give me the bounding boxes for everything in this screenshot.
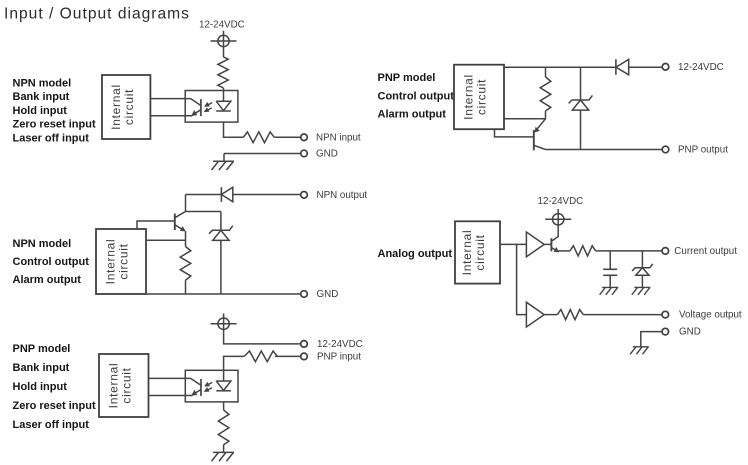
svg-text:Internal: Internal [109, 84, 123, 130]
internal circuit box U1 [102, 75, 150, 139]
svg-text:Internal: Internal [106, 363, 120, 409]
terminal PNP input [301, 353, 308, 360]
wire base from internal circuit [495, 129, 534, 137]
wire PNP input left segment down to LED [275, 355, 301, 357]
svg-text:Input / Output diagrams: Input / Output diagrams [4, 6, 190, 23]
wire zener bottom to GND rail [220, 240, 222, 294]
wire rail to resistor [545, 67, 547, 77]
svg-text:NPN output: NPN output [317, 190, 368, 201]
wire base from internal circuit [137, 221, 175, 229]
wire GND rail [146, 293, 301, 295]
terminal NPN input [301, 134, 308, 141]
ground symbol (zener) [632, 287, 651, 294]
svg-text:circuit: circuit [122, 89, 136, 125]
wire internal circuit to phototransistor collector [150, 98, 190, 100]
svg-text:Internal: Internal [460, 230, 474, 276]
wire internal circuit to buffers junction [500, 243, 526, 245]
wire junction down to buffer 2 [517, 244, 527, 314]
svg-text:PNP input: PNP input [317, 352, 361, 363]
wire collector node to zener [186, 211, 221, 213]
op-amp buffer A1 [526, 232, 544, 257]
svg-text:Control output: Control output [13, 256, 90, 268]
svg-text:circuit: circuit [117, 243, 131, 279]
resistor R4 (series, horizontal) [244, 351, 277, 362]
svg-text:Zero reset input: Zero reset input [13, 119, 96, 131]
wire node to zener ZD3 [641, 251, 643, 268]
wire node to capacitor C1 [609, 251, 611, 269]
resistor R1 (pull-up, vertical) [218, 57, 228, 88]
wire diode to 12-24VDC terminal [629, 66, 662, 68]
svg-text:PNP model: PNP model [13, 343, 71, 355]
wire +V rail [504, 66, 616, 68]
ground symbol [212, 452, 235, 461]
svg-text:Zero reset input: Zero reset input [13, 400, 96, 412]
svg-text:12-24VDC: 12-24VDC [317, 339, 363, 350]
resistor R7 (horizontal) [570, 246, 596, 256]
wire capacitor to ground [609, 275, 611, 287]
svg-text:Laser off input: Laser off input [13, 419, 90, 431]
resistor R6 (vertical) [540, 77, 551, 111]
terminal NPN output [301, 192, 308, 199]
wire resistor to optocoupler [223, 88, 225, 91]
svg-text:circuit: circuit [475, 79, 489, 115]
internal circuit box U2 [96, 229, 146, 294]
svg-text:Hold input: Hold input [13, 381, 68, 393]
resistor R3 (vertical) [180, 247, 191, 281]
op-amp buffer A2 [526, 302, 544, 327]
zener diode ZD1 [209, 226, 233, 241]
wire buffer to transistor base [544, 243, 551, 245]
optocoupler PC1 (box, LED D1, phototransistor Q1, input wires) [185, 91, 238, 123]
ground symbol [212, 161, 235, 170]
svg-text:Alarm output: Alarm output [13, 274, 82, 286]
svg-text:circuit: circuit [473, 234, 487, 270]
transistor Q5 emitter with arrow [551, 248, 556, 251]
terminal GND [662, 328, 669, 335]
wire internal circuit to emitter node [504, 118, 546, 120]
power terminal [211, 313, 237, 334]
internal circuit box U4 [454, 65, 504, 130]
svg-text:Current output: Current output [674, 246, 737, 257]
ground symbol [630, 347, 649, 354]
wire diode to NPN output terminal [233, 194, 301, 196]
svg-text:Control output: Control output [378, 90, 455, 102]
svg-text:NPN model: NPN model [13, 77, 72, 89]
svg-text:PNP output: PNP output [678, 145, 728, 156]
wire collector node to diode [186, 194, 222, 196]
transistor Q2 (NPN) base bar [174, 214, 176, 231]
svg-text:12-24VDC: 12-24VDC [538, 196, 584, 207]
diode D4 (cathode bar left, pointing left) [615, 59, 617, 75]
wire internal circuit to emitter node [146, 239, 186, 241]
svg-text:12-24VDC: 12-24VDC [678, 62, 724, 73]
transistor Q4 collector [534, 145, 546, 149]
svg-text:Bank input: Bank input [13, 362, 70, 374]
svg-text:PNP model: PNP model [378, 72, 436, 84]
wire GND rail down to ground [223, 154, 225, 162]
svg-text:circuit: circuit [119, 367, 133, 403]
resistor R2 (series, horizontal) [243, 132, 274, 143]
svg-text:Bank input: Bank input [13, 91, 70, 103]
svg-text:NPN model: NPN model [13, 238, 72, 250]
terminal PNP output [662, 146, 669, 153]
svg-text:Laser off input: Laser off input [13, 133, 90, 145]
wire GND terminal to ground [641, 332, 662, 347]
zener diode ZD2 [569, 95, 593, 110]
resistor R8 (horizontal) [557, 310, 583, 320]
svg-text:12-24VDC: 12-24VDC [199, 20, 245, 31]
wire internal circuit to phototransistor emitter [150, 115, 192, 117]
svg-text:Internal: Internal [104, 239, 118, 285]
wire internal circuit to phototransistor collector [148, 377, 190, 379]
wire resistor to LED anode [224, 356, 245, 370]
wire resistor to Voltage output terminal [583, 314, 662, 316]
terminal Voltage output [662, 311, 669, 318]
internal circuit box U3 [99, 354, 149, 417]
transistor Q2 emitter with arrow [175, 225, 184, 230]
wire resistor to emitter node [545, 111, 547, 119]
internal circuit box U5 [455, 221, 500, 283]
terminal 12-24VDC [662, 64, 669, 71]
wire zener top [220, 212, 222, 231]
transistor Q4 base bar [533, 130, 535, 150]
wire zener to output rail [580, 110, 582, 149]
diode D2 (cathode bar left, pointing left) [220, 187, 222, 202]
wire LED cathode to resistor [223, 402, 225, 410]
svg-text:Alarm output: Alarm output [378, 109, 447, 121]
wire terminal down to 12-24VDC rail [224, 334, 301, 344]
wire collector up [185, 195, 187, 212]
optocoupler PC2 (box, LED D3, phototransistor Q3, input wires) [185, 370, 238, 402]
terminal GND [301, 291, 308, 298]
svg-text:Internal: Internal [462, 74, 476, 120]
wire LED cathode down and right to resistor R2 [224, 122, 244, 137]
transistor Q2 collector [175, 212, 186, 218]
power terminal 12-24VDC [545, 209, 571, 230]
svg-text:GND: GND [316, 149, 338, 160]
transistor Q4 (PNP) emitter with arrow into base bar [538, 119, 546, 129]
terminal GND [301, 150, 308, 157]
svg-text:GND: GND [317, 289, 339, 300]
power terminal 12-24VDC [211, 31, 237, 52]
terminal 12-24VDC [301, 341, 308, 348]
svg-text:Analog output: Analog output [378, 248, 453, 260]
svg-text:Hold input: Hold input [13, 105, 68, 117]
zener diode ZD3 [632, 264, 653, 275]
svg-text:NPN input: NPN input [316, 132, 361, 143]
svg-text:Voltage output: Voltage output [679, 310, 742, 321]
wire resistor to ground [223, 445, 225, 453]
wire emitter to resistor [559, 250, 570, 252]
terminal Current output [662, 248, 669, 255]
wire resistor to NPN input terminal [274, 136, 301, 138]
wire emitter down [185, 231, 187, 247]
resistor R5 (vertical) [218, 410, 229, 445]
ground symbol (capacitor) [600, 287, 619, 294]
wire terminal to resistor [223, 51, 225, 57]
wire resistor to GND rail [185, 280, 187, 294]
wire rail to zener [580, 67, 582, 100]
transistor Q5 collector [551, 230, 558, 242]
wire resistor to Current output terminal [596, 250, 662, 252]
wire zener to ground [641, 275, 643, 287]
transistor Q5 base bar [550, 238, 552, 251]
capacitor C1 plates [603, 268, 617, 270]
wire internal circuit to phototransistor emitter [148, 395, 192, 397]
wire GND rail [224, 153, 301, 155]
wire buffer 2 to resistor [544, 314, 557, 316]
wire PNP output rail [546, 149, 663, 151]
svg-text:GND: GND [679, 327, 701, 338]
